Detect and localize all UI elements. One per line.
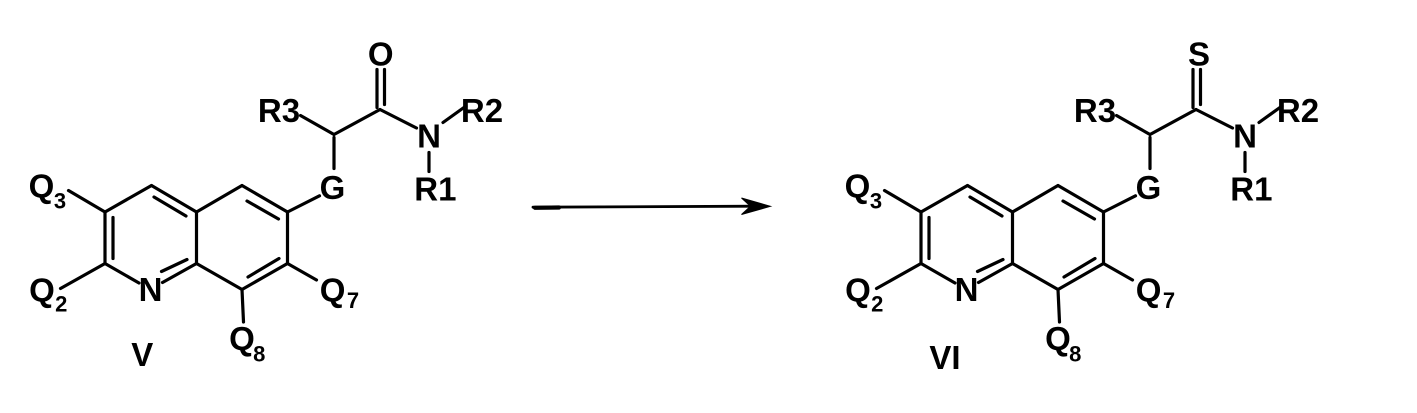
svg-text:S: S: [1188, 36, 1210, 73]
bond C4a-C4 (structure V): [152, 186, 197, 213]
double bond inner C4=C4a (structure VI): [970, 197, 1002, 216]
bond C4a-C4 (structure VI): [968, 186, 1013, 213]
svg-text:3: 3: [870, 189, 882, 214]
double bond inner N1=C8a (structure VI): [978, 260, 1004, 272]
svg-text:R1: R1: [1230, 171, 1272, 208]
reaction arrow head: [742, 198, 771, 215]
bond C8-C8a (structure VI): [1013, 264, 1059, 290]
bond G-CH (structure VI): [1148, 138, 1151, 169]
bond C4a-C5 (structure VI): [1013, 186, 1059, 213]
bond C2-Q2 (structure VI): [877, 264, 922, 289]
bond N-R2 (structure V): [443, 106, 466, 123]
bond N1-C8a (structure V): [163, 264, 197, 283]
reaction arrow shaft thick left segment: [535, 205, 559, 210]
bond C(carbonyl)-N (structure V): [380, 110, 417, 129]
bond N1-C8a (structure VI): [979, 264, 1013, 283]
double bond inner N1=C8a (structure V): [162, 260, 188, 272]
double bond inner C4=C4a (structure V): [154, 197, 186, 216]
bond C7-C8 (structure VI): [1058, 264, 1104, 290]
bond CH-C(carbonyl) (structure VI): [1150, 110, 1196, 135]
svg-text:7: 7: [347, 288, 359, 313]
svg-text:8: 8: [253, 342, 265, 367]
bond CH-C(carbonyl) (structure V): [334, 110, 380, 135]
svg-text:R2: R2: [1277, 92, 1319, 129]
bond C3-Q3 (structure VI): [885, 191, 922, 213]
double bond line 2 C=X (structure V): [383, 70, 386, 105]
svg-text:VI: VI: [929, 339, 960, 376]
bond R3-CH (structure VI): [1117, 116, 1151, 135]
svg-text:Q: Q: [229, 320, 255, 357]
svg-text:N: N: [417, 118, 441, 155]
bond N-R1 (structure VI): [1243, 153, 1246, 172]
svg-text:G: G: [1136, 169, 1162, 206]
svg-text:3: 3: [54, 189, 66, 214]
bond C7-C8 (structure V): [242, 264, 288, 290]
svg-text:R1: R1: [414, 171, 456, 208]
svg-text:R3: R3: [258, 92, 300, 129]
svg-text:8: 8: [1069, 342, 1081, 367]
double bond line 1 C=X (structure VI): [1191, 70, 1194, 108]
double bond inner C3=C2 (structure VI): [927, 218, 930, 259]
svg-text:R3: R3: [1074, 92, 1116, 129]
svg-text:N: N: [955, 271, 979, 308]
double bond inner C7=C8 (structure VI): [1064, 259, 1095, 278]
svg-text:7: 7: [1163, 288, 1175, 313]
bond C2-Q2 (structure V): [61, 264, 106, 289]
bond C8-Q8 (structure VI): [1058, 290, 1060, 323]
double bond line 2 C=X (structure VI): [1199, 70, 1202, 105]
double bond line 1 C=X (structure V): [375, 70, 378, 108]
bond C4-C3 (structure VI): [921, 186, 968, 213]
svg-text:Q: Q: [320, 271, 346, 308]
bond C2-N1 (structure V): [105, 264, 139, 284]
svg-text:G: G: [320, 169, 346, 206]
svg-text:R2: R2: [461, 92, 503, 129]
bond C7-Q7 (structure V): [288, 264, 317, 281]
bond N-R1 (structure V): [427, 153, 430, 172]
bond C(carbonyl)-N (structure VI): [1196, 110, 1233, 129]
svg-text:Q: Q: [29, 271, 55, 308]
double bond inner C3=C2 (structure V): [111, 218, 114, 259]
bond C6-G (structure V): [288, 196, 320, 212]
bond C6-C7 (structure V): [286, 212, 289, 264]
svg-text:Q: Q: [1136, 271, 1162, 308]
bond C7-Q7 (structure VI): [1104, 264, 1133, 281]
svg-text:Q: Q: [1045, 320, 1071, 357]
bond C8a-C4a (ring fusion) (structure VI): [1011, 212, 1014, 264]
bond C3-C2 (structure V): [103, 212, 106, 264]
svg-text:2: 2: [55, 292, 67, 317]
svg-text:V: V: [131, 336, 153, 373]
svg-text:Q: Q: [845, 271, 871, 308]
bond C4a-C5 (structure V): [197, 186, 243, 213]
svg-text:Q: Q: [29, 168, 55, 205]
reaction arrow shaft: [533, 206, 756, 207]
double bond inner C5=C6 (structure VI): [1063, 201, 1095, 219]
svg-text:2: 2: [871, 292, 883, 317]
svg-text:N: N: [139, 271, 163, 308]
double bond inner C7=C8 (structure V): [248, 259, 279, 278]
bond R3-CH (structure V): [301, 116, 335, 135]
bond C6-C7 (structure VI): [1102, 212, 1105, 264]
svg-text:Q: Q: [845, 168, 871, 205]
bond C3-C2 (structure VI): [919, 212, 922, 264]
bond C4-C3 (structure V): [105, 186, 152, 213]
bond N-R2 (structure VI): [1259, 106, 1282, 123]
svg-text:O: O: [368, 36, 394, 73]
bond C8-Q8 (structure V): [242, 290, 244, 323]
bond C2-N1 (structure VI): [921, 264, 955, 284]
bond C5-C6 (structure VI): [1058, 186, 1104, 213]
bond C3-Q3 (structure V): [69, 191, 106, 213]
bond G-CH (structure V): [332, 138, 335, 169]
bond C8a-C4a (ring fusion) (structure V): [195, 212, 198, 264]
bond C5-C6 (structure V): [242, 186, 288, 213]
double bond inner C5=C6 (structure V): [247, 201, 279, 219]
bond C8-C8a (structure V): [197, 264, 243, 290]
bond C6-G (structure VI): [1104, 196, 1136, 212]
svg-text:N: N: [1233, 118, 1257, 155]
